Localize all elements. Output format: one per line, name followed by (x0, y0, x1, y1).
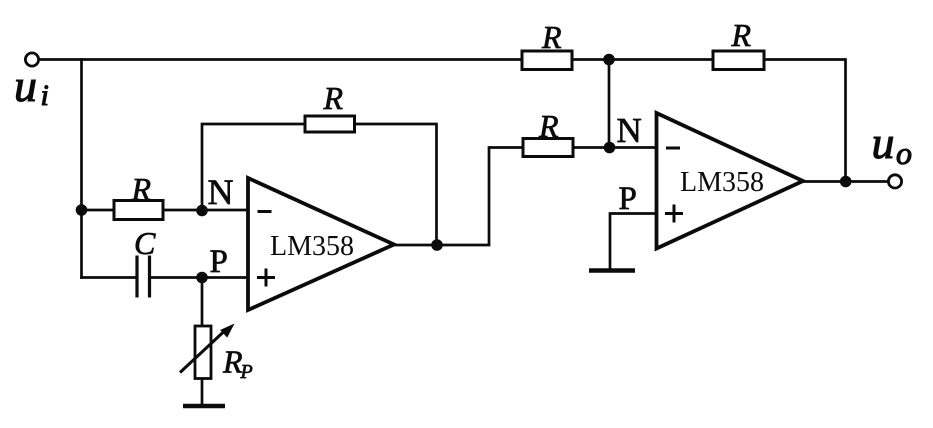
svg-text:P: P (210, 244, 228, 280)
resistor R (top right feedback of U2) (713, 51, 764, 70)
svg-text:R: R (538, 108, 559, 144)
node: junction of input rail and left vertical (76, 204, 88, 216)
wire: middle R row to N2 and op-amp U2 inverting input (573, 146, 657, 149)
U2 non-inverting input plus sign (665, 205, 683, 223)
node: U2 output junction (840, 176, 852, 188)
wire: from P1 node down to potentiometer RP (201, 278, 204, 327)
ground (below RP) (183, 404, 225, 409)
wire: capacitor row left segment (82, 276, 137, 279)
svg-text:R: R (731, 17, 752, 53)
wire: U1 feedback loop from R right side down to output node (355, 124, 437, 245)
wire: U2 output to output terminal (803, 180, 888, 183)
op-amp U1 (first LM358) (248, 178, 394, 310)
wire: top-right corner down to output node (764, 60, 846, 182)
wire: left vertical rail from top rail down to capacitor row (80, 60, 83, 278)
svg-text:C: C (134, 225, 156, 261)
resistor R (input to N1) (114, 201, 163, 220)
potentiometer RP wiper arrow (180, 324, 235, 373)
node N (N1) (196, 205, 208, 217)
wire: vertical from top rail junction to node N2 (608, 60, 611, 148)
svg-text:N: N (617, 111, 642, 150)
wire: top rail from input to R (40, 58, 522, 61)
capacitor C plates (137, 256, 150, 298)
svg-text:R: R (131, 171, 152, 207)
potentiometer RP body (195, 326, 211, 379)
resistor R (top left of second stage input) (522, 51, 572, 70)
U2 inverting input minus sign (666, 147, 680, 150)
resistor R (feedback of U1) (305, 116, 355, 132)
output terminal (888, 175, 901, 188)
U1 triangle body (248, 178, 394, 310)
wire: from RP bottom to ground (201, 379, 204, 403)
wire: P2 branch to U2 non-inverting input (610, 214, 657, 269)
node P (P1) (196, 272, 208, 284)
svg-text:LM358: LM358 (270, 231, 354, 262)
wire: R1 row right segment into N1 and op-amp U1 inverting input (163, 209, 248, 212)
input terminal (25, 53, 38, 66)
wire: U1 output to corner and up to middle R row (394, 148, 523, 246)
svg-text:i: i (41, 79, 49, 112)
svg-text:LM358: LM358 (680, 167, 764, 198)
U1 non-inverting input plus sign (257, 269, 275, 287)
svg-text:o: o (896, 135, 912, 171)
wire: R1 row left segment (82, 209, 115, 212)
svg-text:P: P (240, 361, 253, 383)
node N (N2) (604, 142, 616, 154)
svg-text:R: R (541, 19, 562, 55)
U1 inverting input minus sign (258, 210, 272, 213)
resistor R (between U1 output and N2) (523, 139, 573, 157)
svg-text:P: P (619, 181, 637, 217)
svg-text:u: u (14, 60, 37, 111)
U2 triangle body (657, 113, 804, 249)
svg-text:N: N (208, 172, 234, 212)
node: top rail junction above N2 (603, 54, 615, 66)
wire: capacitor row right segment into P1 and op-amp U1 non-inverting input (150, 276, 248, 279)
wire: U1 feedback loop left and top into R (202, 124, 305, 210)
ground (below P2) (589, 268, 635, 273)
op-amp U2 (second LM358) (657, 113, 804, 249)
wire: top rail between R and R (572, 58, 713, 61)
node: U1 output junction (431, 239, 443, 251)
svg-text:R: R (323, 80, 344, 116)
svg-text:u: u (872, 117, 895, 168)
